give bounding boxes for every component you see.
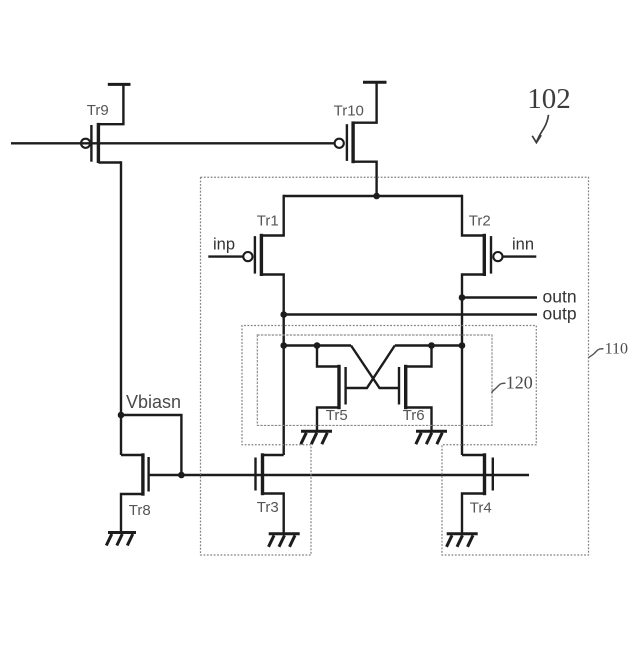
transistor Tr4 channel <box>483 453 486 495</box>
svg-text:inp: inp <box>213 235 235 253</box>
transistor Tr8 channel <box>141 453 144 495</box>
transistor Tr3 gate bar <box>254 458 256 491</box>
transistor Tr5 gate bar <box>344 367 346 405</box>
ground under Tr4 <box>447 534 478 547</box>
transistor Tr9 gate bar <box>90 125 92 162</box>
transistor Tr5 channel <box>337 365 340 409</box>
wire Tr4 drain stub <box>462 454 485 456</box>
wire cross-couple diagonal to Tr5 gate <box>346 346 395 389</box>
wire left chain Tr9 drain down to Tr8 <box>120 161 122 455</box>
svg-text:Tr3: Tr3 <box>257 499 279 516</box>
wire Vbiasn to tail gate line <box>121 415 181 475</box>
transistor Tr9 channel <box>97 123 100 163</box>
wire Tr8 source stub <box>121 494 143 533</box>
node latch right top on right chain <box>459 342 466 349</box>
dashed region 110 boundary polygon <box>201 177 589 555</box>
transistor Tr4 gate bar <box>492 458 494 491</box>
transistor Tr6 channel <box>404 365 407 409</box>
svg-text:102: 102 <box>527 83 571 115</box>
wire Tr3 drain stub <box>263 454 284 456</box>
svg-text:Tr6: Tr6 <box>403 407 425 424</box>
wire Tr8 drain stub <box>121 454 143 456</box>
transistor Tr9 gate bubble <box>81 139 90 148</box>
wire Tr3 source stub down to ground <box>263 494 284 534</box>
node outn tap on right chain <box>459 294 466 301</box>
wire outn <box>462 296 537 298</box>
supply bar Tr10 <box>363 81 387 84</box>
wire input inn <box>503 255 537 257</box>
wire Tr10 source to supply <box>353 81 377 123</box>
svg-text:outp: outp <box>543 303 577 323</box>
wire Tr2 drain stub and right chain down to Tr4 <box>462 275 484 456</box>
leader line for 110 <box>588 349 603 358</box>
node tail gate junction <box>178 472 185 479</box>
wire Tr4 source stub down to ground <box>462 494 485 534</box>
ground under Tr5 <box>301 431 332 444</box>
svg-text:Tr9: Tr9 <box>87 102 109 119</box>
node latch left top on left chain <box>280 342 287 349</box>
svg-text:120: 120 <box>506 372 533 392</box>
wire Tr6 source stub to ground <box>406 408 432 432</box>
ground under Tr6 <box>416 431 447 444</box>
transistor Tr3 channel <box>261 453 264 495</box>
wire cross-couple diagonal to Tr6 gate <box>351 346 399 389</box>
wire latch top left segment <box>284 344 351 346</box>
transistor Tr6 gate bar <box>398 367 400 405</box>
wire Tr1 source up to rail <box>261 195 283 236</box>
svg-text:110: 110 <box>605 340 628 357</box>
svg-text:inn: inn <box>512 235 534 253</box>
svg-text:Tr8: Tr8 <box>129 502 151 519</box>
wire Tr6 drain stub <box>406 346 432 367</box>
svg-text:Tr10: Tr10 <box>334 102 364 119</box>
node Tr6 drain tap <box>428 342 435 349</box>
transistor Tr2 channel <box>483 234 486 276</box>
wire Tr1 drain stub and left chain down to Tr3 <box>261 275 283 456</box>
wire bias input line to Tr9 and Tr10 gates <box>11 142 335 144</box>
transistor Tr1 gate bar <box>254 236 256 274</box>
svg-text:Tr5: Tr5 <box>326 407 348 424</box>
wire Tr5 drain stub <box>317 346 339 367</box>
arrow for 102 <box>532 115 548 143</box>
wire outp <box>284 313 537 315</box>
node Tr5 drain tap <box>314 342 321 349</box>
ground under Tr8 <box>106 533 136 546</box>
wire top rail Tr1-Tr2 <box>284 195 462 197</box>
transistor Tr2 gate bubble <box>493 252 502 261</box>
dashed region 120 inner box <box>257 335 492 425</box>
transistor Tr1 channel <box>260 234 263 276</box>
transistor Tr1 gate bubble <box>243 252 252 261</box>
ground under Tr3 <box>269 534 300 547</box>
transistor Tr10 gate bar <box>346 124 348 161</box>
svg-text:Tr2: Tr2 <box>469 212 491 229</box>
wire Tr10 drain down to rail <box>353 162 377 196</box>
leader line for 120 <box>491 383 505 393</box>
node outp tap on left chain <box>280 311 287 318</box>
transistor Tr10 gate bubble <box>335 139 344 148</box>
wire input inp <box>208 255 243 257</box>
node Tr10 drain on rail <box>373 193 380 200</box>
wire Tr9 drain stub <box>98 161 121 163</box>
transistor Tr2 gate bar <box>490 236 492 274</box>
node Vbiasn junction <box>118 412 125 419</box>
wire Tr9 source to supply <box>98 83 123 124</box>
wire Tr2 source up to rail <box>462 195 484 236</box>
svg-text:Tr1: Tr1 <box>257 212 279 229</box>
svg-text:Tr4: Tr4 <box>470 500 492 517</box>
wire Tr5 source stub to ground <box>317 408 339 432</box>
transistor Tr10 channel <box>351 121 354 163</box>
wire latch top right segment <box>395 344 462 346</box>
wire tail gate line Tr8-Tr3-Tr4 <box>149 474 529 476</box>
transistor Tr8 gate bar <box>147 457 149 492</box>
svg-text:Vbiasn: Vbiasn <box>126 392 181 412</box>
supply bar Tr9 <box>108 83 131 86</box>
